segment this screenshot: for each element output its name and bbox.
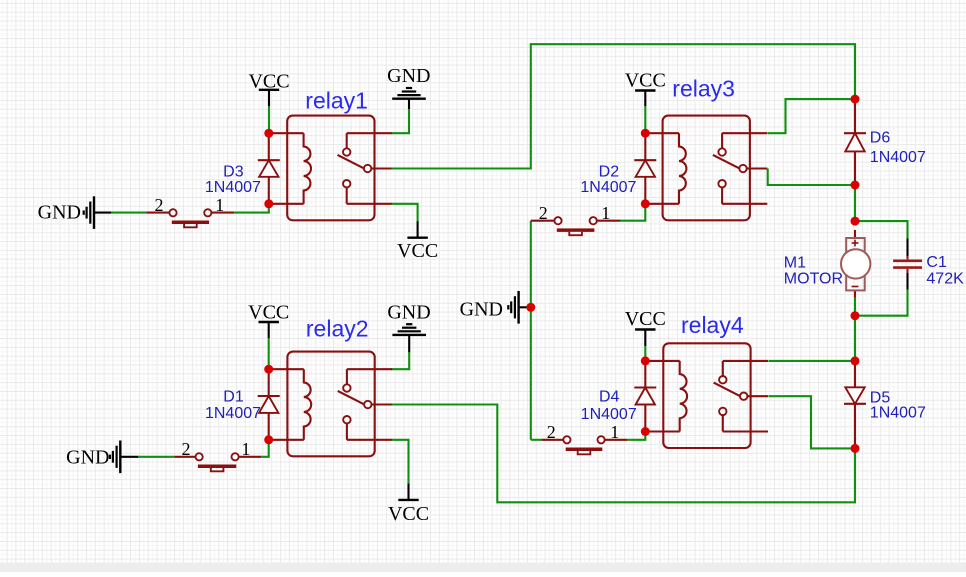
ground middle rail <box>460 291 529 324</box>
wire <box>111 212 146 214</box>
svg-text:VCC: VCC <box>397 240 438 262</box>
ground above relay1 contact <box>387 65 430 109</box>
pushbutton S4 <box>563 436 604 454</box>
svg-text:D1: D1 <box>223 389 244 406</box>
wire <box>854 316 856 361</box>
power symbol VCC (above relay2) <box>248 302 289 339</box>
diode D3 <box>258 133 280 204</box>
wire <box>392 405 855 503</box>
svg-text:D4: D4 <box>599 389 620 406</box>
wire <box>854 185 856 221</box>
value label MOTOR (M1) <box>784 271 843 288</box>
node (junction) <box>641 199 650 208</box>
label relay3 <box>672 76 735 102</box>
svg-text:1N4007: 1N4007 <box>870 149 926 166</box>
svg-text:2: 2 <box>155 195 164 215</box>
node (junction) <box>851 95 860 104</box>
wire <box>644 106 646 133</box>
wire <box>392 204 418 221</box>
value label 1N4007 (D3) <box>205 179 261 196</box>
wire <box>854 298 856 316</box>
wire <box>392 440 409 484</box>
svg-text:GND: GND <box>38 201 81 223</box>
svg-text:1: 1 <box>610 422 619 442</box>
wire <box>768 396 855 448</box>
svg-text:VCC: VCC <box>625 308 666 330</box>
wire <box>531 439 541 441</box>
node (junction) <box>851 181 860 190</box>
wire <box>768 169 855 186</box>
node (junction) <box>264 199 273 208</box>
pin number 1 (S2) <box>241 439 250 459</box>
ground left of button2 <box>66 441 138 474</box>
wire <box>138 456 174 458</box>
label D3 <box>223 164 244 181</box>
node (junction) <box>526 303 535 312</box>
svg-text:1: 1 <box>215 195 224 215</box>
node (junction) <box>264 129 273 138</box>
wire (button3 leads) <box>531 220 620 222</box>
power symbol VCC (below relay1) <box>397 221 438 262</box>
svg-text:VCC: VCC <box>625 70 666 92</box>
pin number 2 (S3) <box>539 203 548 223</box>
node (junction) <box>641 427 650 436</box>
wire <box>234 204 269 213</box>
svg-text:1N4007: 1N4007 <box>580 179 636 196</box>
svg-text:VCC: VCC <box>388 503 429 525</box>
svg-text:M1: M1 <box>784 255 806 272</box>
svg-text:2: 2 <box>547 422 556 442</box>
label D5 <box>870 390 891 407</box>
relay relay4 (coil + SPDT contacts) <box>645 343 768 448</box>
label D6 <box>870 129 891 146</box>
value label 1N4007 (D5) <box>870 405 926 422</box>
diode D4 <box>634 361 656 432</box>
pin number 2 (S2) <box>182 439 191 459</box>
value label 1N4007 (D2) <box>580 179 636 196</box>
svg-text:2: 2 <box>182 439 191 459</box>
label D1 <box>223 389 244 406</box>
relay relay3 (coil + SPDT contacts) <box>645 116 768 221</box>
capacitor C1 <box>893 239 922 290</box>
motor M1 <box>841 230 870 298</box>
wire <box>768 99 855 133</box>
pushbutton S1 <box>169 209 211 227</box>
value label 1N4007 (D6) <box>870 149 926 166</box>
wire <box>855 290 908 316</box>
wire (button1 leads) <box>146 212 234 214</box>
node (junction) <box>641 356 650 365</box>
node (junction) <box>851 444 860 453</box>
svg-text:1N4007: 1N4007 <box>581 406 637 423</box>
node (junction) <box>641 129 650 138</box>
pin number 1 (S1) <box>215 195 224 215</box>
svg-text:GND: GND <box>460 299 503 321</box>
svg-text:GND: GND <box>387 302 430 324</box>
wire <box>392 44 855 168</box>
wire (button2 leads) <box>174 456 261 458</box>
svg-text:D2: D2 <box>599 164 620 181</box>
svg-text:relay1: relay1 <box>305 88 368 114</box>
pin number 2 (S1) <box>155 195 164 215</box>
wire (button4 leads) <box>541 439 627 441</box>
svg-text:VCC: VCC <box>248 302 289 324</box>
node (junction) <box>851 356 860 365</box>
svg-text:D3: D3 <box>223 164 244 181</box>
node (junction) <box>851 217 860 226</box>
diode D2 <box>634 133 656 204</box>
label M1 <box>784 255 806 272</box>
wire <box>620 204 645 221</box>
svg-text:1: 1 <box>241 439 250 459</box>
svg-text:relay4: relay4 <box>681 312 744 338</box>
diode D6 <box>844 99 866 185</box>
label relay1 <box>305 88 368 114</box>
pushbutton S3 <box>554 217 596 235</box>
wire <box>644 346 646 361</box>
ground left of button1 <box>38 196 112 229</box>
svg-text:MOTOR: MOTOR <box>784 271 843 288</box>
svg-text:1: 1 <box>601 203 610 223</box>
pin number 1 (S4) <box>610 422 619 442</box>
diode D5 <box>844 361 866 449</box>
label C1 <box>926 254 947 271</box>
svg-text:relay3: relay3 <box>672 76 735 102</box>
node (junction) <box>264 365 273 374</box>
pin number 1 (S3) <box>601 203 610 223</box>
relay relay1 (coil + SPDT contacts) <box>269 116 392 221</box>
svg-text:GND: GND <box>387 65 430 87</box>
svg-text:472K: 472K <box>926 271 964 288</box>
label relay2 <box>306 316 369 342</box>
wire <box>855 221 908 238</box>
wire <box>268 106 270 133</box>
svg-text:VCC: VCC <box>248 70 289 92</box>
svg-text:1N4007: 1N4007 <box>205 405 261 422</box>
svg-text:D6: D6 <box>870 129 891 146</box>
value label 1N4007 (D1) <box>205 405 261 422</box>
svg-text:1N4007: 1N4007 <box>205 179 261 196</box>
svg-text:relay2: relay2 <box>306 316 369 342</box>
wire <box>391 352 409 369</box>
wire <box>392 109 410 133</box>
diode D1 <box>258 369 280 440</box>
power symbol VCC (above relay1) <box>248 70 289 106</box>
ground above relay2 contact <box>387 302 430 353</box>
wire <box>268 338 270 369</box>
svg-text:1N4007: 1N4007 <box>870 405 926 422</box>
pushbutton S2 <box>196 453 239 471</box>
power symbol VCC (above relay4) <box>625 308 666 346</box>
wire <box>530 221 532 440</box>
wire <box>627 432 645 440</box>
power symbol VCC (above relay3) <box>625 70 666 106</box>
svg-text:C1: C1 <box>926 254 947 271</box>
label D2 <box>599 164 620 181</box>
label D4 <box>599 389 620 406</box>
svg-text:GND: GND <box>66 447 109 469</box>
node (junction) <box>264 435 273 444</box>
wire <box>768 360 855 362</box>
value label 1N4007 (D4) <box>581 406 637 423</box>
node (junction) <box>851 311 860 320</box>
value label 472K (C1) <box>926 271 964 288</box>
pin number 2 (S4) <box>547 422 556 442</box>
svg-text:2: 2 <box>539 203 548 223</box>
power symbol VCC (below relay2) <box>388 483 429 525</box>
label relay4 <box>681 312 744 338</box>
relay relay2 (coil + SPDT contacts) <box>270 352 393 457</box>
wire <box>261 440 269 457</box>
